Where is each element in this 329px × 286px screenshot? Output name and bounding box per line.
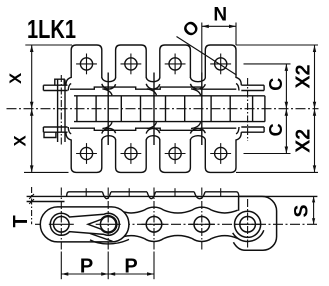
end roller inner <box>240 217 256 233</box>
P dimension line <box>61 273 154 275</box>
link plate profile bottom edges <box>71 236 98 239</box>
attachment tab top 2 <box>116 45 147 86</box>
attachment tab top 4 <box>205 45 236 86</box>
C dimension line <box>285 64 287 154</box>
end bushing edge <box>252 96 254 122</box>
plate tails below connecting link <box>90 234 113 242</box>
svg-text:C: C <box>266 78 286 91</box>
bend curls bottom gap <box>102 136 116 140</box>
pin 4 line and N extension <box>201 23 203 73</box>
tab hole top 1 <box>80 58 92 70</box>
svg-text:S: S <box>291 204 313 217</box>
flange lower line left <box>27 201 65 203</box>
attachment tab top 1 <box>71 45 102 86</box>
attachment tab bottom 2 <box>116 132 147 173</box>
plan outer plate strip left bottom <box>43 127 67 132</box>
plan roller band top edge <box>74 95 265 97</box>
svg-text:O: O <box>178 16 203 41</box>
pin 2 line <box>107 73 109 146</box>
link plate profile top edges <box>71 210 98 213</box>
tab hole top 2 <box>125 58 137 70</box>
far-side flange tip bottom-left <box>44 132 56 137</box>
roller circles <box>54 217 70 233</box>
tab hole bottom 1 <box>80 147 92 159</box>
side view centerline <box>35 223 317 225</box>
pin 1 axis <box>60 75 62 146</box>
bend curl bottom outer-left <box>66 132 71 140</box>
N extension line right <box>235 23 237 46</box>
S dimension line <box>313 196 315 224</box>
plate disc arcs <box>98 207 118 210</box>
bend curls bottom gap <box>190 136 205 140</box>
bend curl top outer-left <box>66 77 71 85</box>
roller vertical centerlines <box>60 188 62 252</box>
svg-text:X: X <box>7 73 25 84</box>
pin 5 axis <box>247 78 249 141</box>
svg-text:N: N <box>213 4 227 25</box>
plan outer plate strip right top <box>241 85 264 90</box>
attachment tab bottom 3 <box>160 132 191 173</box>
tab hole top 3 <box>169 58 181 70</box>
tab hole bottom 3 <box>169 147 181 159</box>
X dimension extension line bottom <box>24 171 69 173</box>
flange top segments with bend dips <box>67 192 239 199</box>
tab hole bottom 4 <box>215 147 227 159</box>
T tick marks <box>29 194 34 199</box>
attachment tab top 3 <box>160 45 191 86</box>
X dimension line <box>31 45 33 172</box>
svg-text:P: P <box>124 255 137 277</box>
plan roller band bottom edge <box>74 121 265 123</box>
bushing edges <box>76 96 78 122</box>
spring clip slot <box>88 216 117 233</box>
pin 3 line <box>153 73 155 146</box>
bend curls top gap <box>102 77 116 81</box>
attachment tab bottom 1 <box>71 132 102 173</box>
svg-text:1LK1: 1LK1 <box>27 14 76 44</box>
O leader line <box>177 37 237 76</box>
attachment tab bottom 4 <box>205 132 236 173</box>
plan chain centerline <box>7 108 319 110</box>
plate edge line under tabs top <box>70 87 236 89</box>
tab hole bottom 2 <box>125 147 137 159</box>
top edge extension to X2 <box>236 44 318 46</box>
svg-text:P: P <box>80 255 93 277</box>
plan band right end <box>264 96 266 122</box>
bottom edge extension to X2 <box>236 171 318 173</box>
spring clip outline <box>50 213 119 235</box>
N dimension line <box>202 25 236 27</box>
plan outer plate strip right bottom <box>241 127 264 132</box>
bend curls bottom gap <box>146 136 160 140</box>
end attachment plate <box>233 196 276 250</box>
T dimension line <box>31 187 33 224</box>
svg-text:X2: X2 <box>293 129 315 153</box>
hole center extension top to C <box>244 63 291 65</box>
X dimension extension line top <box>25 44 72 46</box>
bend curls top gap <box>146 77 160 81</box>
flange platform line (continuous) <box>27 195 318 197</box>
bend curl bottom outer-right <box>236 132 241 140</box>
svg-text:X: X <box>12 135 30 146</box>
end plate disc arc <box>233 230 264 241</box>
bend curls top gap <box>190 77 205 81</box>
svg-text:C: C <box>266 123 286 136</box>
pin 1 body <box>57 80 59 143</box>
tab hole top 4 <box>215 58 227 70</box>
end roller outer <box>235 211 261 237</box>
connecting link plate (oval) <box>40 207 129 242</box>
plate edge line under tabs bottom <box>70 128 236 130</box>
bend curl top outer-right <box>236 77 241 85</box>
roller crosshair horizontals <box>49 223 74 225</box>
svg-text:X2: X2 <box>293 65 315 89</box>
far-side flange tip top-left <box>55 79 64 85</box>
plan outer plate strip left top <box>43 85 67 90</box>
hole center extension bottom to C <box>244 153 291 155</box>
X2 dimension line <box>314 45 316 172</box>
P extension lines <box>60 252 62 280</box>
flange center ticks <box>85 188 87 197</box>
svg-text:T: T <box>10 215 32 227</box>
